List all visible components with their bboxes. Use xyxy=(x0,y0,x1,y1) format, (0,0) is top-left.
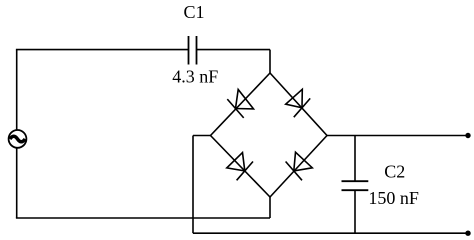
wire: left vertical from source down to bottom rail xyxy=(16,148,18,218)
diode D3 (bridge bottom-left arm) xyxy=(211,136,271,198)
wire: drop from top rail to bridge top node xyxy=(269,50,271,73)
wire: C2 to output bottom rail xyxy=(354,190,356,233)
svg-text:C1: C1 xyxy=(183,2,204,22)
wire: top rail to C1 left plate xyxy=(16,49,189,51)
wire: stub left of bridge left node xyxy=(193,135,211,137)
terminal dot: output bottom xyxy=(465,231,470,236)
wire: left vertical from source to top rail xyxy=(16,50,18,130)
ac source V1 xyxy=(9,130,27,148)
svg-text:4.3 nF: 4.3 nF xyxy=(172,67,218,87)
wire: bottom rail from source to bridge bottom riser xyxy=(16,217,270,219)
terminal dot: output top xyxy=(465,133,470,138)
wire: bridge right node to output top terminal xyxy=(327,135,468,137)
diode D1 (bridge top-left arm) xyxy=(211,73,271,136)
svg-text:150 nF: 150 nF xyxy=(368,188,419,208)
diode D2 (bridge top-right arm) xyxy=(270,73,327,136)
wire: drop from left stub to output bottom rail xyxy=(192,136,194,234)
wire: output bottom rail xyxy=(193,232,468,234)
wire: C1 right plate to top corner xyxy=(197,49,271,51)
svg-text:C2: C2 xyxy=(384,162,405,182)
wire: drop from output top rail to C2 xyxy=(354,136,356,182)
wire: riser from bottom rail to bridge bottom node xyxy=(269,197,271,218)
capacitor C2 xyxy=(342,181,369,190)
diode D4 (bridge bottom-right arm) xyxy=(270,136,327,198)
capacitor C1 xyxy=(189,36,197,65)
